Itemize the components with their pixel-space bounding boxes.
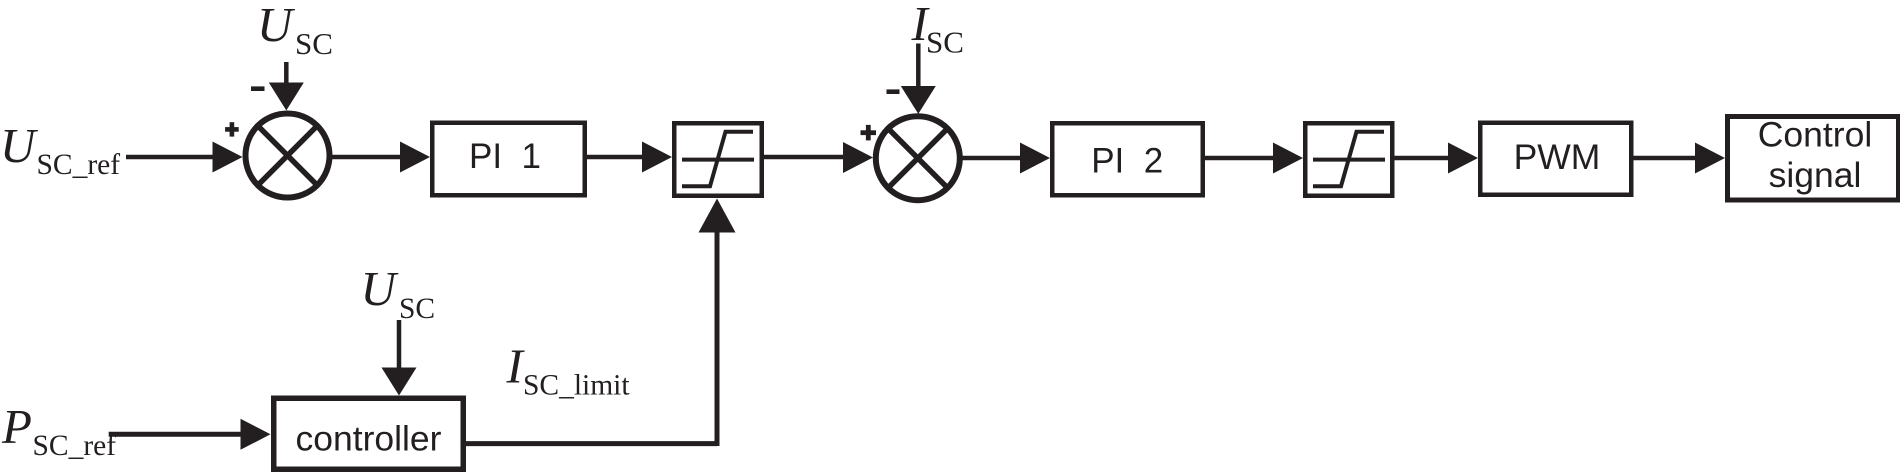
- wire controller to SAT1 (I_SC_limit path): [463, 199, 736, 447]
- node P_SC_ref label: [1, 399, 116, 462]
- wire PWM to Control signal: [1632, 143, 1725, 174]
- minus sign at S1: [251, 86, 265, 91]
- svg-text:Control: Control: [1758, 114, 1872, 154]
- block PI 1: [432, 123, 585, 196]
- svg-text:PI 2: PI 2: [1091, 142, 1163, 181]
- wire SAT1 to summing junction S2: [762, 142, 873, 173]
- wire SAT2 to PWM: [1392, 143, 1478, 174]
- svg-text:controller: controller: [295, 419, 441, 459]
- node I_SC_limit label: [506, 339, 631, 402]
- block Control signal: [1728, 114, 1899, 200]
- block PI 2: [1052, 123, 1203, 195]
- summing junction S2 (circle with X): [876, 116, 960, 200]
- wire U_SC down to controller: [382, 320, 417, 396]
- wire PI 1 to saturation limiter SAT1: [587, 142, 672, 173]
- svg-text:signal: signal: [1769, 155, 1862, 195]
- svg-text:U: U: [257, 0, 296, 52]
- svg-text:PWM: PWM: [1514, 137, 1601, 177]
- svg-text:SC_ref: SC_ref: [37, 149, 121, 181]
- block saturation limiter SAT1: [674, 123, 762, 196]
- wire PI 2 to saturation limiter SAT2: [1205, 143, 1303, 174]
- node U_SC_ref label: [0, 118, 120, 181]
- wire S2 to PI 2: [960, 143, 1050, 174]
- node U_SC label (top): [257, 0, 333, 61]
- svg-text:SC_ref: SC_ref: [33, 430, 117, 462]
- svg-text:SC: SC: [399, 293, 435, 325]
- summing junction S1 (circle with X): [246, 114, 330, 198]
- plus sign at S2: [861, 125, 877, 140]
- svg-text:SC_limit: SC_limit: [523, 370, 630, 402]
- svg-text:PI 1: PI 1: [469, 137, 541, 176]
- plus sign at S1: [225, 122, 239, 136]
- wire I_SC down to summing junction S2: [901, 44, 936, 114]
- node I_SC label (top): [911, 0, 964, 60]
- wire U_SC down to summing junction S1: [269, 62, 304, 111]
- svg-text:P: P: [1, 399, 32, 454]
- svg-text:SC: SC: [295, 26, 333, 61]
- svg-text:SC: SC: [926, 25, 964, 60]
- node U_SC label (middle): [361, 261, 436, 325]
- minus sign at S2: [887, 89, 900, 94]
- block saturation limiter SAT2: [1305, 123, 1392, 196]
- wire S1 to PI 1: [330, 142, 430, 173]
- svg-text:U: U: [0, 118, 39, 173]
- block controller: [274, 398, 464, 469]
- svg-text:U: U: [361, 261, 400, 316]
- wire P_SC_ref to controller: [109, 419, 271, 450]
- wire U_SC_ref to summing junction S1: [126, 142, 243, 173]
- block PWM: [1480, 123, 1631, 195]
